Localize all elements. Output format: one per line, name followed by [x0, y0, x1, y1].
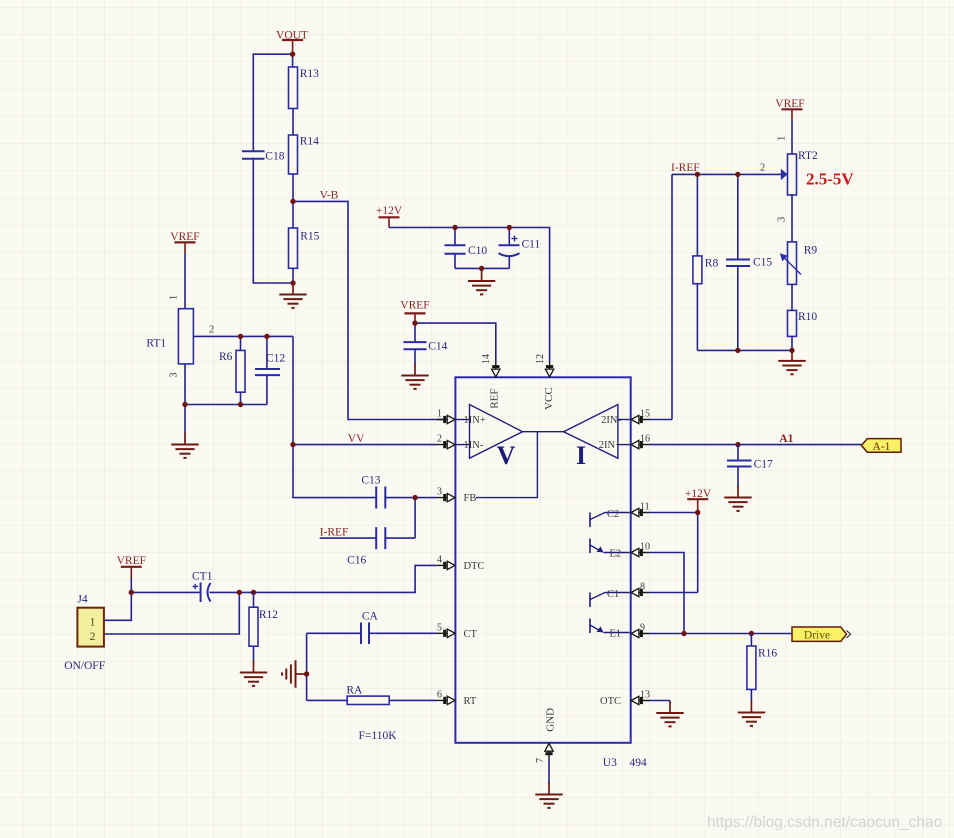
pin 11 — [631, 502, 650, 517]
wire R14 to V-B node — [292, 174, 294, 201]
svg-text:3: 3 — [169, 372, 180, 377]
svg-text:V-B: V-B — [320, 190, 339, 202]
wire 2IN+ internal — [618, 444, 630, 446]
port A-1 — [861, 439, 901, 453]
capacitor CA — [361, 623, 369, 645]
svg-text:DTC: DTC — [464, 561, 485, 572]
svg-text:1IN+: 1IN+ — [464, 415, 486, 426]
junction C15 bottom — [735, 348, 740, 353]
pin 5 — [437, 622, 455, 637]
svg-text:R8: R8 — [705, 258, 719, 270]
wire rail down to FB — [293, 336, 376, 497]
capacitor C15 — [726, 260, 750, 267]
svg-text:VCC: VCC — [543, 387, 555, 410]
capacitor C17 — [727, 461, 752, 467]
wire C10-C11 bottom rail — [455, 267, 509, 269]
svg-text:RT1: RT1 — [146, 338, 166, 350]
wire C10 leads — [454, 228, 456, 246]
svg-text:1: 1 — [777, 136, 788, 141]
potentiometer RT1 — [178, 309, 193, 364]
pin 13 — [631, 690, 650, 705]
svg-text:4: 4 — [437, 554, 442, 565]
junction bottom rail — [479, 266, 484, 271]
power port VOUT — [276, 30, 308, 55]
wire V-B to pin1 — [293, 201, 443, 419]
ground below pin 7 — [535, 783, 562, 808]
svg-text:C17: C17 — [754, 459, 773, 471]
power port +12V — [376, 205, 403, 228]
svg-text:C10: C10 — [468, 245, 487, 257]
ground below RT1 — [171, 433, 198, 458]
pin 6 — [437, 689, 455, 704]
ground below R16 — [738, 701, 765, 726]
wire C15 top lead — [737, 174, 739, 259]
pin 14 — [481, 354, 500, 377]
svg-text:2: 2 — [209, 325, 214, 336]
wire I-REF down to pin15 — [671, 174, 673, 419]
ground at pin 13 — [656, 701, 683, 726]
resistor R16 — [747, 646, 756, 689]
ground below R12 — [240, 661, 267, 686]
op-amp U2 comparator I triangle — [564, 405, 618, 459]
wire R13-R14 — [292, 109, 294, 136]
svg-text:1IN-: 1IN- — [464, 440, 484, 451]
wire CA/RA vertical — [306, 633, 308, 700]
svg-text:13: 13 — [640, 690, 650, 701]
wire RT2 to R9 — [791, 195, 793, 242]
svg-text:RA: RA — [346, 685, 363, 697]
wire R15 to ground node — [292, 268, 294, 283]
junction VOUT — [290, 52, 295, 57]
ground below R10 — [778, 349, 805, 374]
svg-text:C16: C16 — [347, 555, 366, 567]
svg-text:2: 2 — [90, 631, 96, 643]
svg-text:I: I — [576, 441, 586, 470]
wire R16 top lead — [750, 634, 752, 647]
svg-text:R14: R14 — [300, 136, 319, 148]
port Drive — [792, 627, 851, 642]
wiper arrow RT2 — [781, 169, 788, 180]
power port VREF (CT1) — [117, 555, 146, 578]
wire C16 right lead — [385, 537, 415, 539]
svg-text:14: 14 — [481, 354, 492, 364]
svg-text:2.5-5V: 2.5-5V — [806, 170, 854, 189]
power port VREF (C14) — [400, 300, 429, 324]
wire C18 bottom rail — [253, 159, 293, 283]
junction pin11/+12V — [695, 510, 700, 515]
svg-text:9: 9 — [640, 623, 645, 634]
pin 15 — [631, 409, 650, 424]
wire RT1 pin3 down — [184, 364, 186, 405]
junction V-B — [290, 199, 295, 204]
svg-text:2IN-: 2IN- — [601, 415, 621, 426]
wire RA to pin6 — [389, 699, 437, 701]
wire VV to pin2 — [293, 444, 437, 446]
junction R15 bottom — [290, 280, 295, 285]
junction C10 top — [452, 225, 457, 230]
wire C14 bottom lead — [414, 349, 416, 364]
svg-text:I-REF: I-REF — [320, 527, 349, 539]
wire R9 to R10 — [791, 284, 793, 310]
wire CT1 to pin4 — [210, 565, 438, 592]
wire C17 bottom lead — [737, 467, 739, 488]
capacitor C10 — [445, 245, 466, 254]
pin 1 — [437, 409, 455, 424]
svg-text:C15: C15 — [753, 257, 772, 269]
wire R12 top lead — [253, 592, 255, 607]
power port VREF (RT1) — [170, 231, 199, 253]
U3 body rectangle — [455, 377, 630, 743]
svg-text:12: 12 — [535, 354, 546, 364]
wire pin8 — [649, 592, 698, 594]
svg-text:2IN+: 2IN+ — [599, 440, 621, 451]
svg-text:R9: R9 — [804, 245, 818, 257]
junction VREF/C14 — [412, 320, 417, 325]
resistor R12 — [249, 607, 258, 646]
junction VV tee — [290, 442, 295, 447]
wire 1IN- internal — [456, 444, 469, 446]
svg-text:R12: R12 — [259, 609, 278, 621]
svg-text:2: 2 — [437, 434, 442, 445]
junction RT1 pin3 — [182, 402, 187, 407]
svg-text:VREF: VREF — [400, 300, 429, 312]
pin 2 — [437, 434, 455, 449]
svg-text:C12: C12 — [266, 353, 285, 365]
pin 4 — [437, 554, 455, 569]
svg-text:I-REF: I-REF — [671, 162, 700, 174]
capacitor CT1 polarized — [193, 583, 211, 603]
capacitor C13 — [376, 487, 385, 509]
capacitor C11 polarized — [499, 236, 520, 257]
svg-text:FB: FB — [464, 493, 477, 504]
wire J4 pin1 to VREF — [104, 592, 131, 620]
svg-text:VREF: VREF — [775, 98, 804, 110]
svg-text:10: 10 — [640, 542, 650, 553]
wire VOUT to R13 — [292, 54, 294, 67]
svg-text:R13: R13 — [300, 68, 319, 80]
junction R8 top — [695, 172, 700, 177]
svg-text:C2: C2 — [607, 509, 619, 520]
svg-text:J4: J4 — [77, 594, 87, 606]
wire R8 top lead — [696, 174, 698, 256]
svg-text:RT: RT — [464, 696, 477, 707]
resistor R8 — [693, 256, 702, 284]
wire bottom rail R8/C15/R10 — [697, 349, 792, 351]
svg-text:C14: C14 — [428, 341, 447, 353]
wire bottom rail RT1/R6/C12 — [185, 404, 267, 406]
svg-text:6: 6 — [437, 689, 442, 700]
svg-text:C11: C11 — [522, 239, 541, 251]
wire R10 to ground rail — [791, 336, 793, 350]
svg-text:+12V: +12V — [376, 205, 403, 217]
svg-text:3: 3 — [437, 487, 442, 498]
svg-text:R16: R16 — [758, 648, 777, 660]
ground below C10/C11 — [468, 269, 495, 294]
svg-text:1: 1 — [90, 617, 96, 629]
wire C16 to I-REF — [320, 537, 377, 539]
capacitor C12 — [255, 369, 280, 375]
wire RA left lead — [307, 699, 348, 701]
svg-text:3: 3 — [777, 217, 788, 222]
svg-text:A1: A1 — [779, 433, 793, 445]
wire +12V down to pin8 — [697, 513, 699, 593]
ground below C14 — [401, 364, 428, 389]
wire +12V rail to pin12 — [389, 228, 550, 363]
svg-text:OTC: OTC — [600, 696, 621, 707]
svg-text:CA: CA — [362, 611, 379, 623]
junction VREF/J4 — [129, 590, 134, 595]
wire C13 to pin3 — [385, 497, 437, 499]
svg-text:U3: U3 — [603, 757, 617, 769]
ground below C17 — [724, 486, 751, 511]
pin 8 — [631, 582, 649, 597]
wire pin16 to A-1 — [649, 444, 861, 446]
svg-text:494: 494 — [630, 757, 648, 769]
svg-text:11: 11 — [640, 502, 650, 513]
svg-text:15: 15 — [640, 409, 650, 420]
wire R8 bottom lead — [696, 284, 698, 351]
wire J4 pin2 — [104, 592, 239, 634]
ground sideways — [282, 660, 307, 687]
resistor R15 — [289, 228, 298, 268]
wire C12 bottom lead — [266, 375, 268, 404]
svg-text:5: 5 — [437, 622, 442, 633]
svg-text:Drive: Drive — [804, 630, 830, 642]
junction R6 bottom — [238, 402, 243, 407]
junction C12 top — [264, 334, 269, 339]
wire R6 top lead — [240, 336, 242, 350]
pin 12 — [535, 354, 554, 377]
wire FB internal — [476, 432, 537, 498]
svg-text:CT1: CT1 — [192, 571, 213, 583]
svg-text:CT: CT — [464, 629, 478, 640]
wire pin7 to ground — [548, 759, 550, 785]
resistor R6 — [236, 350, 245, 392]
resistor R10 — [788, 310, 797, 336]
transistor Q1 internal — [590, 593, 630, 634]
wire VREF down to junction — [130, 578, 132, 592]
svg-text:C18: C18 — [265, 151, 284, 163]
capacitor C18 — [242, 151, 265, 159]
potentiometer RT2 — [788, 154, 797, 195]
wire V-B to R15 — [292, 201, 294, 228]
pin 3 — [437, 487, 455, 502]
wire C11 leads — [508, 228, 510, 246]
wire VOUT to C18 rail — [253, 54, 292, 151]
svg-text:ON/OFF: ON/OFF — [64, 660, 105, 672]
wire R12 bottom lead — [253, 646, 255, 662]
wire C12 top lead — [266, 336, 268, 369]
pin 10 — [631, 542, 650, 557]
wire pin11 to +12V — [649, 512, 698, 514]
wire VREF to RT2 — [791, 120, 793, 154]
op-amp U1 comparator V triangle — [470, 405, 523, 459]
svg-text:C1: C1 — [607, 589, 619, 600]
junction FB node — [412, 495, 417, 500]
pin 7 — [535, 743, 553, 763]
wire CA left lead — [307, 632, 361, 634]
wire RT1 to ground — [184, 405, 186, 434]
svg-text:1: 1 — [437, 409, 442, 420]
junction R6 top — [238, 334, 243, 339]
svg-text:E2: E2 — [610, 549, 622, 560]
junction pin9/pin10 — [681, 631, 686, 636]
wire C13/C16 vertical — [414, 498, 416, 538]
wire pin13 to ground — [649, 700, 670, 702]
junction C17 top — [735, 442, 740, 447]
svg-text:7: 7 — [535, 758, 546, 763]
svg-text:VREF: VREF — [170, 231, 199, 243]
svg-text:8: 8 — [640, 582, 645, 593]
svg-text:RT2: RT2 — [798, 150, 818, 162]
svg-text:REF: REF — [489, 389, 501, 409]
wire I-REF wiper — [672, 173, 782, 175]
power port VREF (RT2) — [775, 98, 804, 120]
wire CA to pin5 — [369, 632, 437, 634]
wire apex link — [523, 431, 564, 433]
resistor R9 variable — [780, 242, 801, 285]
svg-text:VV: VV — [348, 433, 365, 445]
capacitor C16 — [376, 527, 385, 549]
svg-text:F=110K: F=110K — [359, 730, 398, 742]
svg-text:R15: R15 — [300, 231, 319, 243]
svg-text:2: 2 — [760, 163, 765, 174]
junction R12 top — [251, 590, 256, 595]
svg-text:https://blog.csdn.net/caocun_c: https://blog.csdn.net/caocun_chao — [707, 814, 942, 831]
wire C17 top lead — [737, 445, 739, 461]
wire pin9 to Drive — [649, 633, 792, 635]
wire 1IN+ internal — [456, 419, 469, 421]
svg-text:E1: E1 — [610, 629, 622, 640]
wire pin10 down to pin9 — [649, 553, 684, 634]
ground below R15 — [279, 283, 306, 308]
wire pin15 to I-REF rail — [649, 419, 672, 421]
svg-text:V: V — [497, 441, 516, 470]
junction R16 top — [749, 631, 754, 636]
resistor R13 — [289, 67, 298, 109]
junction sideways ground — [304, 671, 309, 676]
wire C14 top lead — [414, 323, 416, 342]
capacitor C14 — [404, 342, 427, 349]
svg-text:16: 16 — [640, 434, 650, 445]
wire VREF to pin14 — [415, 323, 496, 362]
svg-text:R6: R6 — [219, 351, 233, 363]
svg-text:C13: C13 — [361, 475, 380, 487]
junction J4 pin2 — [237, 590, 242, 595]
wire R6 bottom lead — [240, 392, 242, 404]
svg-text:1: 1 — [169, 295, 180, 300]
wire VREF to RT1 — [184, 253, 186, 309]
power port +12V (output stage) — [685, 488, 712, 513]
svg-text:VREF: VREF — [117, 555, 146, 567]
svg-text:A-1: A-1 — [873, 441, 891, 453]
wire C15 bottom lead — [737, 266, 739, 350]
svg-text:GND: GND — [545, 708, 557, 732]
connector J4 — [77, 594, 104, 647]
wire R16 bottom lead — [750, 689, 752, 702]
resistor RA — [347, 696, 389, 704]
svg-text:R10: R10 — [798, 311, 817, 323]
wire VREF junction to CT1 — [131, 591, 200, 593]
pin 9 — [631, 623, 649, 638]
junction C11 top — [507, 225, 512, 230]
wire RT1 wiper — [193, 335, 293, 337]
junction R10 bottom — [789, 348, 794, 353]
transistor Q2 internal — [590, 513, 630, 554]
wire 2IN- internal — [618, 419, 630, 421]
pin 16 — [631, 434, 650, 449]
junction C15 top — [735, 172, 740, 177]
resistor R14 — [289, 135, 298, 174]
